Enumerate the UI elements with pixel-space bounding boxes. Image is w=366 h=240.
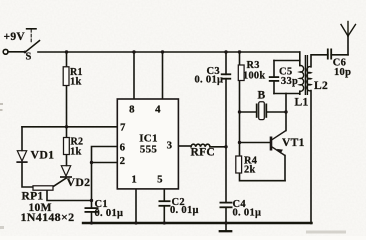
svg-text:7: 7	[120, 122, 126, 134]
svg-text:3: 3	[167, 140, 173, 152]
svg-text:VD2: VD2	[67, 175, 91, 189]
svg-text:S: S	[26, 52, 32, 63]
svg-text:0. 01μ: 0. 01μ	[95, 208, 124, 219]
svg-text:VD1: VD1	[31, 147, 55, 161]
svg-text:0. 01μ: 0. 01μ	[233, 207, 262, 218]
svg-text:1k: 1k	[70, 77, 82, 88]
svg-text:+9V: +9V	[4, 31, 26, 43]
svg-text:8: 8	[129, 104, 135, 116]
svg-text:1k: 1k	[70, 147, 82, 158]
svg-text:5: 5	[157, 174, 163, 186]
svg-text:0. 01μ: 0. 01μ	[195, 74, 224, 85]
svg-text:4: 4	[155, 104, 161, 116]
svg-text:RFC: RFC	[191, 147, 216, 159]
svg-text:100k: 100k	[243, 70, 265, 81]
svg-text:VT1: VT1	[282, 137, 305, 149]
svg-text:L2: L2	[314, 80, 328, 92]
svg-text:R3: R3	[247, 60, 260, 71]
svg-text:10p: 10p	[334, 67, 351, 78]
svg-text:1N4148×2: 1N4148×2	[21, 210, 75, 224]
svg-text:L1: L1	[295, 97, 309, 109]
svg-text:2k: 2k	[244, 164, 255, 175]
svg-text:B: B	[258, 90, 266, 102]
svg-text:33p: 33p	[281, 76, 298, 87]
svg-text:2: 2	[120, 155, 126, 167]
svg-text:1: 1	[131, 174, 137, 186]
svg-text:555: 555	[140, 143, 158, 155]
svg-text:RP1: RP1	[22, 191, 44, 203]
svg-text:6: 6	[120, 142, 126, 154]
svg-text:0. 01μ: 0. 01μ	[170, 205, 199, 216]
